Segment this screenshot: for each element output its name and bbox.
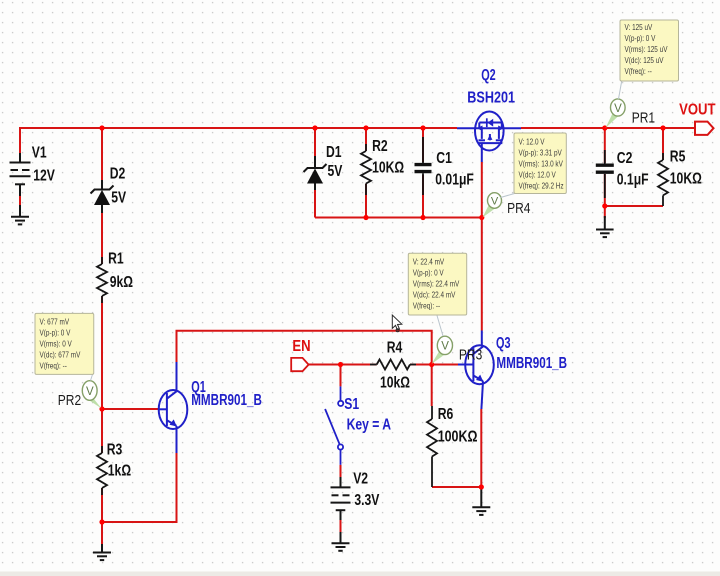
wire C2 node to ground — [604, 206, 606, 218]
capacitor C2 — [596, 150, 614, 198]
svg-text:R5: R5 — [670, 148, 686, 166]
junction node (102,409) — [99, 406, 104, 411]
ground below V2 — [332, 543, 350, 551]
svg-text:V: V — [491, 196, 499, 208]
measurement box PR4 — [514, 133, 566, 194]
svg-text:V(rms): 125 uV: V(rms): 125 uV — [625, 44, 668, 54]
svg-text:D2: D2 — [110, 165, 126, 183]
junction node (663,128) — [660, 125, 665, 130]
junction node (431.7,364.5) — [429, 362, 434, 367]
connector EN tag — [291, 358, 308, 371]
measurement box PR1 — [620, 20, 679, 81]
probe PR2 — [82, 375, 101, 409]
svg-text:BSH201: BSH201 — [467, 89, 515, 107]
resistor R5 — [658, 153, 668, 206]
wire D1 branch — [314, 128, 316, 162]
connector VOUT tag — [695, 122, 714, 135]
wire R4 to node — [410, 364, 432, 366]
svg-text:MMBR901_B: MMBR901_B — [496, 353, 567, 371]
wire top rail left — [20, 127, 457, 129]
svg-text:V: 12.0 V: V: 12.0 V — [519, 137, 545, 147]
svg-text:V(rms): 0 V: V(rms): 0 V — [40, 339, 72, 349]
wire R3 branch — [101, 409, 103, 453]
svg-text:1kΩ: 1kΩ — [108, 462, 131, 480]
svg-text:10kΩ: 10kΩ — [380, 374, 410, 392]
resistor R4 — [370, 360, 416, 370]
ground below R3/Q1 emitter — [93, 544, 111, 560]
capacitor C1 — [415, 137, 432, 195]
svg-text:V(freq): --: V(freq): -- — [40, 361, 68, 371]
svg-text:V(dc): 12.0 V: V(dc): 12.0 V — [519, 170, 556, 180]
svg-text:V(freq): 29.2 Hz: V(freq): 29.2 Hz — [519, 181, 564, 191]
svg-text:9kΩ: 9kΩ — [110, 274, 133, 292]
svg-text:R4: R4 — [387, 339, 403, 357]
svg-text:100KΩ: 100KΩ — [438, 428, 478, 446]
wire S1 branch down — [340, 365, 342, 387]
wire Q1 base — [102, 408, 158, 410]
wire C2 branch — [604, 128, 606, 163]
svg-text:3.3V: 3.3V — [354, 492, 379, 510]
svg-text:V(rms): 13.0 kV: V(rms): 13.0 kV — [519, 159, 563, 169]
switch S1 — [325, 386, 343, 464]
junction node (366,217.5) — [363, 215, 368, 220]
wire C2 to R5 bottom — [605, 205, 663, 207]
wire S1 node to R4 — [341, 364, 377, 366]
wire R5 branch — [662, 128, 664, 160]
svg-text:PR1: PR1 — [632, 109, 655, 126]
wire R6 top — [431, 365, 433, 407]
measurement box PR2 — [35, 313, 94, 374]
wire R6 bottom to emitter node — [432, 486, 481, 488]
svg-text:R1: R1 — [108, 250, 124, 268]
wire Q3 emitter down — [480, 409, 482, 487]
svg-text:S1: S1 — [344, 396, 359, 414]
transistor Q3 — [458, 331, 494, 410]
svg-text:V2: V2 — [353, 470, 368, 488]
svg-text:V: 125 uV: V: 125 uV — [625, 22, 653, 32]
svg-text:10KΩ: 10KΩ — [372, 159, 404, 177]
wire Q1 collector up and across to R4 node — [177, 331, 432, 365]
junction node (102,522) — [99, 519, 104, 524]
svg-text:V(p-p): 0 V: V(p-p): 0 V — [40, 328, 71, 338]
zener D2 — [91, 180, 114, 213]
svg-text:MMBR901_B: MMBR901_B — [191, 390, 262, 408]
junction node (605,128) — [602, 125, 607, 130]
junction node (481.3,487) — [479, 484, 484, 489]
wire EN to S1 node — [308, 364, 341, 366]
mouse cursor — [392, 315, 402, 332]
svg-text:V(rms): 22.4 mV: V(rms): 22.4 mV — [413, 279, 460, 289]
junction node (315,128) — [312, 125, 317, 130]
svg-text:V(p-p): 0 V: V(p-p): 0 V — [413, 268, 444, 278]
svg-text:12V: 12V — [33, 167, 55, 185]
wire C1 branch — [422, 128, 424, 162]
measurement box PR3 — [408, 253, 466, 315]
junction node (604.8,206) — [602, 203, 607, 208]
ground below Q3 emitter — [472, 487, 490, 515]
svg-text:5V: 5V — [328, 163, 343, 181]
wire Q1 emitter down and left — [102, 453, 177, 522]
svg-text:Q2: Q2 — [481, 66, 496, 84]
wire Q2 gate down to bottom rail and Q3 collector — [481, 162, 483, 331]
junction node (340.5,364.5) — [338, 362, 343, 367]
svg-text:V: V — [614, 103, 622, 115]
wire V1 branch — [19, 127, 21, 162]
svg-text:V(dc): 125 uV: V(dc): 125 uV — [625, 55, 664, 65]
svg-text:V: V — [441, 341, 449, 353]
svg-text:V(freq): --: V(freq): -- — [413, 301, 441, 311]
svg-text:V(freq): --: V(freq): -- — [625, 66, 653, 76]
junction node (423,128) — [420, 125, 425, 130]
svg-text:PR3: PR3 — [459, 346, 482, 363]
zener D1 — [304, 156, 327, 190]
resistor R2 — [361, 144, 371, 195]
svg-text:C2: C2 — [617, 150, 633, 168]
svg-text:C1: C1 — [436, 149, 452, 167]
junction node (481.8,217.5) — [479, 215, 484, 220]
ground below C2 — [596, 216, 614, 237]
svg-text:V: 22.4 mV: V: 22.4 mV — [413, 257, 444, 267]
junction node (423,217.5) — [420, 215, 425, 220]
svg-text:V: 677 mV: V: 677 mV — [40, 317, 70, 327]
resistor R1 — [97, 257, 107, 303]
battery V1 — [10, 153, 31, 217]
probe PR4 — [483, 193, 515, 218]
svg-text:V(dc): 22.4 mV: V(dc): 22.4 mV — [413, 290, 456, 300]
svg-text:Key = A: Key = A — [347, 416, 391, 434]
svg-text:Q3: Q3 — [496, 334, 511, 352]
transistor Q1 — [158, 362, 187, 453]
wire S1 to V2 — [340, 465, 342, 477]
wire V2 to ground — [340, 520, 342, 532]
battery V2 — [331, 477, 351, 543]
svg-text:0.1μF: 0.1μF — [617, 171, 649, 189]
svg-text:PR2: PR2 — [58, 392, 81, 409]
junction node (102,128) — [99, 125, 104, 130]
ground below V1 — [11, 217, 29, 225]
svg-text:V(p-p): 3.31 pV: V(p-p): 3.31 pV — [519, 148, 562, 158]
svg-text:R6: R6 — [438, 406, 454, 424]
svg-text:10KΩ: 10KΩ — [670, 170, 702, 188]
svg-text:V: V — [86, 386, 94, 398]
MOSFET Q2 — [457, 112, 521, 163]
svg-text:0.01μF: 0.01μF — [435, 171, 474, 189]
svg-text:V1: V1 — [32, 144, 47, 162]
svg-text:R2: R2 — [372, 138, 388, 156]
probe PR1 — [606, 81, 626, 128]
wire D2/R1 branch — [101, 128, 103, 187]
svg-text:R3: R3 — [107, 441, 123, 459]
resistor R6 — [427, 406, 437, 487]
wire R2 branch — [365, 128, 367, 151]
svg-text:VOUT: VOUT — [679, 101, 715, 118]
svg-text:V(dc): 677 mV: V(dc): 677 mV — [40, 350, 81, 360]
svg-text:PR4: PR4 — [507, 200, 531, 217]
svg-text:D1: D1 — [326, 144, 342, 162]
wire node to Q3 base — [432, 364, 458, 366]
svg-text:EN: EN — [292, 338, 310, 355]
wire top rail right — [521, 127, 695, 129]
svg-text:5V: 5V — [111, 189, 126, 207]
svg-text:V(p-p): 0 V: V(p-p): 0 V — [625, 33, 656, 43]
wire bottom rail — [315, 217, 482, 219]
probe PR3 — [432, 316, 453, 365]
junction node (366,128) — [363, 125, 368, 130]
resistor R3 — [97, 446, 107, 495]
